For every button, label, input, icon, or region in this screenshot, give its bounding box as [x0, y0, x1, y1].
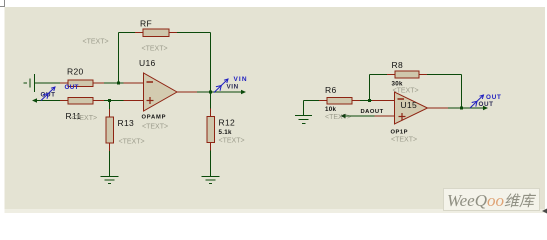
probe name VIN (blue): [234, 76, 248, 83]
svg-text:<TEXT>: <TEXT>: [325, 114, 351, 121]
svg-text:OPAMP: OPAMP: [142, 115, 167, 121]
svg-text:<TEXT>: <TEXT>: [219, 138, 245, 145]
net name OUT (dark): [479, 101, 494, 108]
svg-text:R8: R8: [392, 60, 403, 70]
net name VIN (dark): [227, 84, 239, 91]
net label DAOUT: [361, 109, 384, 115]
wire R12 to ground: [210, 151, 212, 177]
svg-text:OUT: OUT: [65, 84, 79, 91]
wire output to right with terminal arrow: [211, 90, 247, 94]
wire feedback right vertical: [461, 75, 463, 109]
label R20: [67, 67, 84, 77]
label R13: [118, 118, 135, 128]
voltage probe OUT (right): [470, 95, 484, 108]
wire down to R13: [109, 101, 111, 110]
text placeholder under RF: [142, 46, 168, 53]
svg-text:R12: R12: [219, 118, 236, 128]
wire feedback right vertical: [210, 33, 212, 93]
voltage probe VIN: [214, 79, 228, 93]
resistor RF: [135, 29, 177, 37]
label R12: [219, 118, 236, 128]
wire U15 output: [428, 107, 462, 109]
junction dot node (feedback / minus input): [117, 82, 120, 85]
svg-text:<TEXT>: <TEXT>: [391, 137, 417, 144]
junction dot node VIN: [209, 91, 212, 94]
svg-text:U15: U15: [401, 100, 418, 110]
label R11: [66, 111, 82, 121]
svg-text:VIN: VIN: [227, 84, 239, 91]
resistor R12: [207, 109, 215, 151]
wire battery to R20: [35, 82, 61, 84]
text placeholder under R12 value: [219, 138, 245, 145]
text placeholder under OP1P: [391, 137, 417, 144]
wire terminal arrow into R11 row: [32, 98, 60, 102]
svg-text:30k: 30k: [392, 81, 403, 88]
wire output to right with terminal arrow: [462, 106, 489, 110]
label U15: [401, 100, 418, 110]
svg-text:U16: U16: [139, 58, 156, 68]
svg-text:5.1k: 5.1k: [219, 129, 233, 136]
corner resize arrow bottom-right: [542, 209, 547, 214]
U16 minus sign: [147, 81, 154, 83]
label R8: [392, 60, 403, 70]
svg-text:<TEXT>: <TEXT>: [142, 46, 168, 53]
wire R20 to U16 minus input, with RF feedback junction: [104, 82, 124, 84]
ground under R13: [101, 177, 119, 184]
resistor R11: [60, 97, 104, 104]
junction dot node OUT: [460, 107, 463, 110]
resistor R6: [319, 97, 360, 104]
svg-text:R13: R13: [118, 118, 135, 128]
net label OUT (blue) on R20 wire: [65, 84, 79, 91]
wire U16 output to junction: [197, 91, 211, 93]
wire R11 to U16 plus input: [104, 100, 124, 102]
svg-text:<TEXT>: <TEXT>: [142, 124, 168, 131]
svg-text:R20: R20: [67, 67, 84, 77]
label U16: [139, 58, 156, 68]
label R6: [325, 85, 336, 95]
wire feedback top-left: [119, 32, 136, 34]
ruler corner mark top-left: [0, 0, 5, 7]
value 30k: [392, 81, 403, 88]
net name OUT (dark) at probe: [41, 92, 56, 99]
svg-text:<TEXT>: <TEXT>: [83, 39, 109, 46]
svg-text:<TEXT>: <TEXT>: [71, 115, 97, 122]
U15 plus sign: [399, 113, 406, 120]
label OP1P: [391, 130, 408, 136]
wire terminal arrow DAOUT to U15 plus input: [341, 114, 395, 118]
text placeholder left of RF loop: [83, 39, 109, 46]
svg-text:DAOUT: DAOUT: [361, 109, 384, 115]
text placeholder under OPAMP: [142, 124, 168, 131]
resistor R13: [106, 109, 114, 151]
probe name OUT (blue): [486, 94, 502, 101]
svg-text:R6: R6: [325, 85, 336, 95]
ground left of R6: [304, 101, 320, 116]
label OPAMP: [142, 115, 167, 121]
watermark WeeQoo: [443, 188, 540, 211]
svg-text:<TEXT>: <TEXT>: [119, 139, 145, 146]
op-amp U16: [124, 83, 198, 101]
label RF: [140, 19, 152, 29]
wire feedback top-right: [427, 74, 462, 76]
text placeholder under 30k: [393, 88, 419, 95]
wire down to R12: [210, 92, 212, 109]
wire feedback top-right: [177, 32, 211, 34]
text placeholder under R6: [325, 114, 351, 121]
svg-text:OUT: OUT: [486, 94, 502, 101]
wire feedback left vertical: [369, 75, 371, 101]
U16 plus sign: [147, 97, 154, 104]
voltage probe OUT: [41, 87, 55, 101]
junction dot node (R13 tap): [108, 99, 111, 102]
svg-text:RF: RF: [140, 19, 152, 29]
wire R6 to U15 minus input: [360, 100, 372, 102]
wire feedback top-left: [370, 74, 388, 76]
battery/cell symbol: [24, 74, 35, 92]
svg-text:OP1P: OP1P: [391, 130, 408, 136]
svg-text:10k: 10k: [325, 106, 336, 113]
wire R13 to ground: [109, 151, 111, 177]
U15 minus sign: [398, 98, 405, 100]
svg-text:VIN: VIN: [234, 76, 248, 83]
wire feedback left vertical: [118, 33, 120, 84]
svg-text:OUT: OUT: [479, 101, 494, 108]
op-amp U15: [372, 100, 395, 102]
text placeholder overlapping R11 label: [71, 115, 97, 122]
text placeholder under R13: [119, 139, 145, 146]
junction dot node (R8 feedback): [368, 99, 371, 102]
value 10k: [325, 106, 336, 113]
resistor R20: [60, 80, 104, 87]
value 5.1k: [219, 129, 233, 136]
resistor R8: [387, 71, 427, 78]
ground under R12: [202, 177, 220, 184]
